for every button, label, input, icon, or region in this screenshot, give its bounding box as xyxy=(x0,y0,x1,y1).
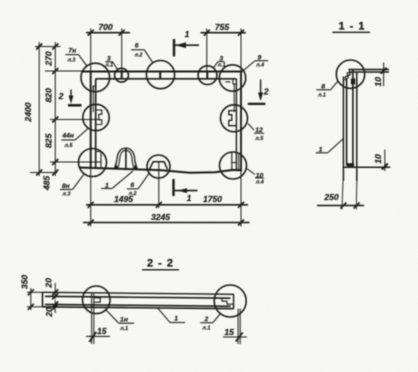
detail circle 2-2 right xyxy=(214,285,246,317)
slab inner top line xyxy=(45,296,231,298)
left anchor step xyxy=(94,298,100,302)
label 9/л.4 xyxy=(244,54,269,70)
lifting loop dome xyxy=(115,148,138,169)
svg-text:2: 2 xyxy=(263,87,269,97)
svg-text:10: 10 xyxy=(373,154,383,164)
svg-text:20: 20 xyxy=(44,278,54,289)
tick xyxy=(88,30,94,36)
right end step notch xyxy=(222,298,234,304)
top flange inner line xyxy=(350,71,389,73)
detail circle top-centre xyxy=(146,61,174,89)
row frame top xyxy=(45,70,91,72)
plate tick xyxy=(121,72,123,79)
dim 250 xyxy=(317,192,364,209)
weld step bottom-left xyxy=(96,152,101,169)
svg-text:л.3: л.3 xyxy=(67,57,76,63)
label 1 section 1-1 xyxy=(316,139,344,154)
tick xyxy=(88,202,94,208)
detail circle top-left corner xyxy=(81,63,110,92)
dim 350 xyxy=(20,275,43,310)
label 3/л.1 top-right xyxy=(214,56,226,69)
detail circle around trapezoid xyxy=(147,155,170,178)
extension right outer down xyxy=(240,172,242,227)
label 1 mid 2-2 xyxy=(158,308,186,323)
section marker 2 right xyxy=(248,80,269,104)
svg-text:825: 825 xyxy=(44,133,54,148)
svg-text:л.5: л.5 xyxy=(64,143,74,149)
plate tick centre xyxy=(159,72,161,79)
extension left outer down xyxy=(90,168,92,227)
svg-text:7н: 7н xyxy=(68,47,76,54)
embedded plate circle 3/л.1 left xyxy=(115,68,129,82)
svg-text:л.1: л.1 xyxy=(317,93,326,99)
label 1 bottom loop xyxy=(101,171,133,189)
svg-text:20: 20 xyxy=(44,307,54,318)
extension line right outer up xyxy=(240,29,242,72)
svg-text:2400: 2400 xyxy=(23,102,33,122)
svg-text:л.1: л.1 xyxy=(119,326,128,332)
svg-text:л.1: л.1 xyxy=(217,63,226,69)
title underline xyxy=(142,269,179,271)
detail circle 8/л.1 xyxy=(336,60,364,88)
ticks 2400 xyxy=(36,44,42,50)
svg-text:1н: 1н xyxy=(120,316,128,323)
svg-text:485: 485 xyxy=(42,176,52,192)
weld notch mid-left xyxy=(96,110,102,125)
slab top line xyxy=(42,292,234,294)
svg-text:350: 350 xyxy=(20,275,30,290)
right end cap xyxy=(233,294,235,308)
row 270 top xyxy=(35,46,61,48)
dim line 755 xyxy=(201,32,246,34)
label 7н/л.3 xyxy=(65,47,86,66)
detail circle top-right corner xyxy=(219,65,245,91)
svg-text:15: 15 xyxy=(97,326,107,336)
svg-text:л.4: л.4 xyxy=(255,180,264,186)
svg-text:л.1: л.1 xyxy=(104,62,113,68)
dim 10 top right xyxy=(373,63,387,87)
svg-text:755: 755 xyxy=(215,22,230,32)
extension line 755 xyxy=(206,29,208,72)
svg-text:6: 6 xyxy=(135,42,139,49)
label 8/л.1 xyxy=(316,81,338,98)
frame bottom edge xyxy=(79,168,242,173)
svg-text:2 - 2: 2 - 2 xyxy=(147,258,174,270)
dim 20 bottom xyxy=(44,300,58,318)
section marker 2 left xyxy=(58,90,82,106)
frame top outer edge xyxy=(82,71,243,73)
anchor blob xyxy=(351,79,355,85)
label 12/л.5 xyxy=(248,124,264,142)
label 6/л.2 bottom xyxy=(127,172,150,197)
embedded plate circle 3/л.1 right xyxy=(198,66,217,85)
svg-text:2: 2 xyxy=(58,91,64,101)
2400 line xyxy=(38,42,40,176)
frame left inner edge xyxy=(95,79,97,168)
channel right outer xyxy=(356,72,358,181)
detail circle bottom-left corner xyxy=(79,149,107,177)
tick xyxy=(88,220,94,226)
dim line 3245 xyxy=(83,222,250,224)
channel right inner xyxy=(352,70,354,166)
channel left inner xyxy=(346,78,348,166)
svg-text:1 - 1: 1 - 1 xyxy=(338,21,365,33)
weld step bottom-right xyxy=(232,152,237,171)
tick xyxy=(238,30,244,36)
label 44н/л.5 xyxy=(61,129,88,149)
detail circle bottom-right corner xyxy=(220,152,247,179)
dim line 1495/1750 xyxy=(86,204,248,206)
frame right inner edge xyxy=(235,79,237,172)
ticks chain xyxy=(52,44,58,50)
label 3/л.1 top-left xyxy=(104,55,117,69)
row bottom-left detail xyxy=(50,161,96,163)
dim 10 bottom right xyxy=(373,150,388,172)
frame left outer edge xyxy=(90,72,92,168)
extension line 700 xyxy=(121,29,123,72)
svg-text:700: 700 xyxy=(98,22,113,32)
label 1н/л.1 xyxy=(106,310,134,332)
tick xyxy=(238,220,244,226)
channel bottom web dark xyxy=(347,163,355,166)
svg-text:15: 15 xyxy=(224,327,234,337)
bottom flange line xyxy=(343,166,390,168)
svg-text:6: 6 xyxy=(130,182,134,189)
label 2/л.1 xyxy=(200,314,220,332)
frame right outer edge xyxy=(240,72,242,172)
svg-text:250: 250 xyxy=(323,192,339,202)
svg-text:3245: 3245 xyxy=(151,212,170,222)
svg-text:л.4: л.4 xyxy=(255,63,264,69)
tick xyxy=(238,202,244,208)
svg-text:л.2: л.2 xyxy=(134,53,143,59)
channel left outer xyxy=(342,77,344,182)
svg-text:1: 1 xyxy=(185,29,190,39)
rod bottom tick left xyxy=(86,335,110,337)
svg-text:820: 820 xyxy=(44,88,54,103)
label 6/л.2 top xyxy=(131,42,153,62)
tick xyxy=(156,202,162,208)
svg-text:л.3: л.3 xyxy=(61,192,70,198)
tick xyxy=(119,30,125,36)
svg-text:л.5: л.5 xyxy=(254,136,264,142)
row mid-left detail xyxy=(50,119,99,121)
section marker 1 top xyxy=(174,29,199,57)
dim line 700 xyxy=(86,32,130,34)
right anchor rod xyxy=(237,309,239,344)
slab bottom line xyxy=(42,307,234,309)
title underline xyxy=(332,31,370,33)
svg-text:л.2: л.2 xyxy=(128,191,137,197)
svg-text:л.1: л.1 xyxy=(201,326,210,332)
extension line left outer up xyxy=(90,29,92,72)
weld notch mid-right xyxy=(229,111,237,126)
svg-text:44н: 44н xyxy=(61,132,74,139)
label 10/л.4 xyxy=(246,168,264,186)
detail circle mid-left xyxy=(83,104,109,130)
detail circle mid-right xyxy=(221,105,248,132)
frame top inner edge xyxy=(96,78,237,80)
tick xyxy=(204,30,210,36)
svg-text:1: 1 xyxy=(187,193,192,203)
dim 20 top xyxy=(44,278,59,299)
slab inner bottom line xyxy=(45,304,231,306)
corner weld step top-left xyxy=(93,79,96,92)
plate tick xyxy=(206,72,208,79)
section marker 1 bottom xyxy=(174,179,198,203)
svg-text:270: 270 xyxy=(44,51,54,67)
corner weld step top-right xyxy=(233,79,236,84)
anchor trapezoid item 6 xyxy=(150,162,168,170)
extension lines below section 1-1 xyxy=(342,181,343,210)
svg-text:1: 1 xyxy=(174,316,178,323)
svg-text:1750: 1750 xyxy=(203,194,222,204)
rod bottom tick right xyxy=(223,336,247,338)
extension trapezoid axis down xyxy=(158,162,160,208)
left anchor rod xyxy=(91,293,93,345)
top flange line xyxy=(348,69,389,71)
detail circle 2-2 left xyxy=(83,286,111,314)
label 8н/л.3 xyxy=(60,174,84,198)
chain line xyxy=(54,42,56,176)
anchor hook step xyxy=(345,70,349,81)
svg-text:10: 10 xyxy=(373,77,383,87)
row chain bottom xyxy=(30,172,57,174)
left end cap xyxy=(42,292,44,307)
